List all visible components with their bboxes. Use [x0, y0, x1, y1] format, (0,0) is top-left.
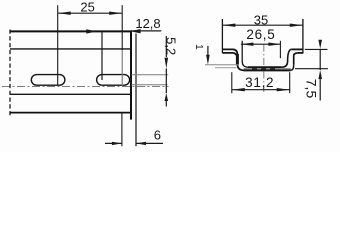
- svg-text:26,5: 26,5: [246, 27, 275, 42]
- svg-text:25: 25: [80, 0, 94, 14]
- svg-text:35: 35: [254, 12, 268, 27]
- svg-text:5,2: 5,2: [164, 37, 179, 55]
- svg-text:1: 1: [193, 44, 204, 50]
- svg-text:7,5: 7,5: [303, 79, 319, 99]
- svg-text:12,8: 12,8: [135, 16, 160, 31]
- svg-text:31,2: 31,2: [245, 75, 274, 90]
- svg-text:6: 6: [154, 128, 161, 143]
